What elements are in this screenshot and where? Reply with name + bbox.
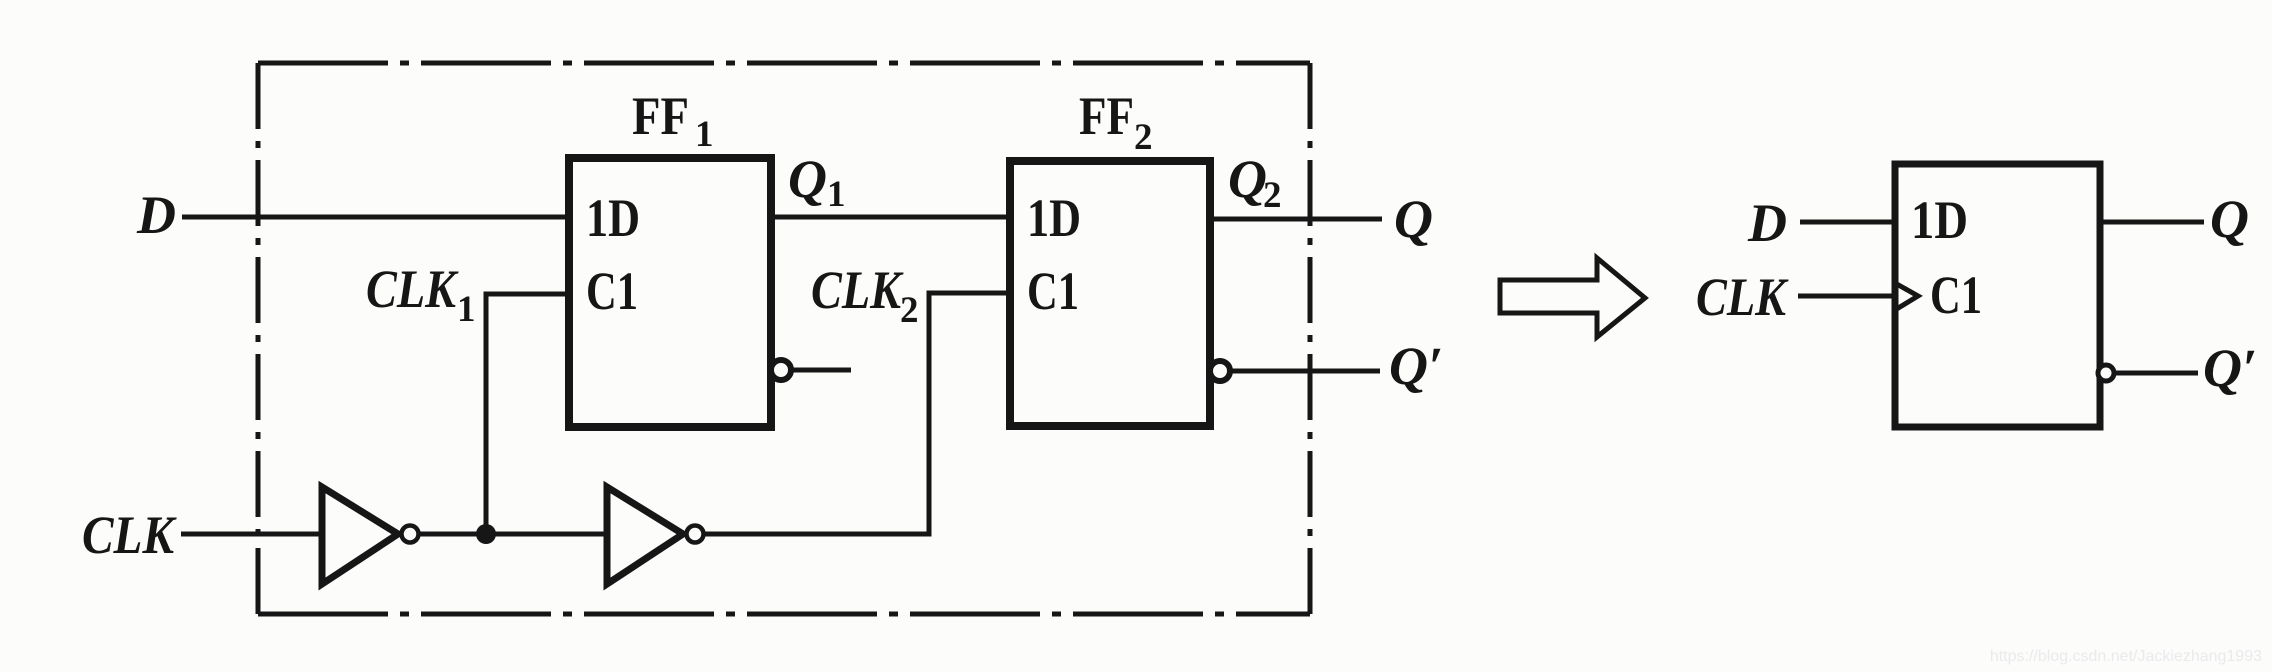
wire CLK input (right): [1798, 294, 1895, 299]
inverter G2 bubble: [687, 526, 704, 543]
svg-text:D: D: [1747, 193, 1787, 253]
FF2 inverted-output bubble: [1210, 361, 1230, 381]
svg-text:C1: C1: [586, 261, 638, 321]
svg-text:Q: Q: [1394, 189, 1433, 249]
svg-text:https://blog.csdn.net/Jackiezh: https://blog.csdn.net/Jackiezhang1993: [1990, 648, 2262, 665]
svg-text:Q: Q: [1228, 149, 1267, 209]
dash-dot boundary box bottom: [258, 612, 1310, 617]
svg-text:1: 1: [695, 114, 714, 155]
svg-text:FF: FF: [1079, 86, 1134, 146]
dash-dot boundary box top: [258, 61, 1310, 66]
simplified flip-flop box: [1895, 164, 2100, 427]
wire Q' output: [1231, 369, 1380, 374]
junction node: [476, 524, 496, 544]
svg-text:Q: Q: [2210, 189, 2249, 249]
wire Q' output (right): [2116, 371, 2198, 376]
svg-text:FF: FF: [632, 86, 689, 146]
wire FF1 Q' stub: [792, 368, 851, 373]
block arrow: [1500, 258, 1645, 337]
svg-text:CLK: CLK: [82, 505, 177, 565]
svg-text:1D: 1D: [586, 188, 640, 248]
svg-text:1D: 1D: [1027, 188, 1081, 248]
wire CLK input: [181, 532, 322, 537]
inverter G2: [607, 487, 683, 584]
wire D input (right): [1800, 220, 1895, 225]
svg-text:CLK: CLK: [1696, 267, 1789, 327]
wire D input: [182, 215, 569, 220]
svg-text:CLK: CLK: [811, 260, 904, 320]
wire Q output (right): [2100, 220, 2204, 225]
FF1 inverted-output bubble: [771, 360, 791, 380]
clock edge triangle: [1895, 283, 1918, 310]
wire Q1: [771, 215, 1010, 220]
bubble Q' (right): [2098, 365, 2114, 381]
wire CLK2: [704, 293, 1010, 534]
svg-text:1: 1: [827, 174, 846, 215]
svg-text:CLK: CLK: [366, 259, 459, 319]
svg-text:D: D: [136, 185, 176, 245]
svg-text:Q′: Q′: [1389, 336, 1443, 396]
wire G1 to G2: [419, 532, 607, 537]
svg-text:C1: C1: [1930, 265, 1982, 325]
svg-text:1: 1: [457, 289, 476, 330]
svg-text:1D: 1D: [1911, 190, 1968, 250]
svg-text:C1: C1: [1027, 261, 1079, 321]
svg-text:2: 2: [1134, 117, 1153, 158]
svg-text:2: 2: [1263, 175, 1282, 216]
inverter G1 bubble: [402, 526, 419, 543]
wire CLK1: [486, 294, 569, 534]
inverter G1: [322, 487, 398, 584]
wire Q output: [1210, 217, 1382, 222]
svg-text:2: 2: [900, 290, 919, 331]
svg-text:Q′: Q′: [2203, 338, 2257, 398]
flip-flop FF1 box: [569, 158, 771, 427]
svg-text:Q: Q: [788, 149, 827, 209]
dash-dot boundary box right: [1308, 63, 1313, 614]
flip-flop FF2 box: [1010, 161, 1210, 426]
dash-dot boundary box left: [256, 63, 261, 614]
